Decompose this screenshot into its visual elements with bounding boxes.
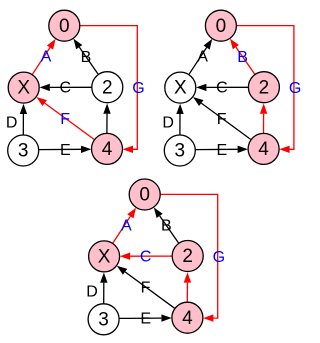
svg-text:D: D (6, 115, 18, 132)
svg-text:G: G (132, 80, 144, 97)
svg-text:3: 3 (175, 141, 186, 162)
svg-text:X: X (174, 78, 187, 99)
svg-text:F: F (141, 280, 151, 297)
svg-text:2: 2 (102, 77, 113, 98)
svg-text:A: A (41, 49, 52, 66)
svg-text:2: 2 (259, 77, 270, 98)
svg-text:3: 3 (18, 141, 29, 162)
svg-text:A: A (121, 218, 132, 235)
svg-text:F: F (60, 111, 70, 128)
svg-text:B: B (81, 49, 92, 66)
svg-text:4: 4 (182, 308, 193, 329)
svg-text:B: B (161, 218, 172, 235)
svg-text:E: E (140, 311, 151, 328)
svg-text:C: C (140, 248, 152, 265)
svg-text:4: 4 (102, 139, 113, 160)
svg-text:X: X (17, 78, 30, 99)
svg-text:E: E (217, 142, 228, 159)
svg-text:E: E (60, 142, 71, 159)
svg-text:X: X (98, 247, 111, 268)
svg-text:G: G (289, 80, 301, 97)
svg-text:0: 0 (216, 16, 227, 37)
svg-text:C: C (60, 80, 72, 97)
svg-text:F: F (217, 111, 227, 128)
svg-text:2: 2 (182, 246, 193, 267)
svg-text:C: C (216, 80, 228, 97)
svg-text:B: B (237, 49, 248, 66)
svg-text:0: 0 (59, 16, 70, 37)
svg-text:4: 4 (258, 139, 269, 160)
svg-text:3: 3 (98, 309, 109, 330)
svg-text:0: 0 (139, 185, 150, 206)
svg-text:D: D (162, 115, 174, 132)
svg-text:G: G (213, 249, 225, 266)
svg-text:D: D (86, 283, 98, 300)
svg-text:A: A (197, 49, 208, 66)
